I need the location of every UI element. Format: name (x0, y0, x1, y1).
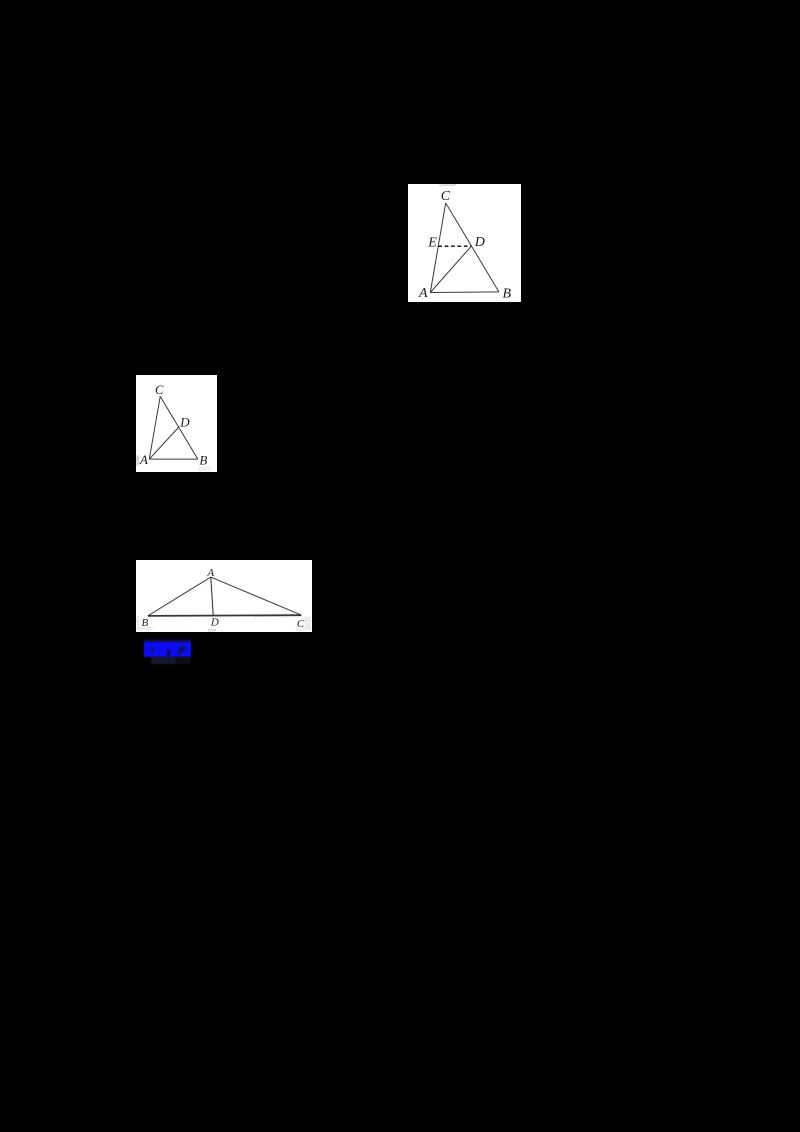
near-black under-blob right (176, 657, 191, 665)
svg-text:A: A (418, 286, 428, 301)
svg-text:D: D (474, 235, 485, 250)
figure 1 white panel (triangle ABC with D on CB, E on CA) (408, 184, 521, 302)
wire side BC (148, 614, 301, 617)
svg-text:A: A (139, 452, 148, 467)
wire side AC (211, 577, 301, 615)
faint smudge bottom right (198, 467, 211, 471)
segment AD (149, 427, 179, 460)
blue answer blob (144, 640, 192, 657)
svg-text:B: B (503, 287, 512, 302)
wire side CB (446, 203, 499, 292)
gray stripe artifact left of A (137, 456, 139, 466)
svg-text:E: E (427, 236, 437, 251)
faint top smudge (439, 184, 456, 186)
glyph gap mark 2 (167, 650, 170, 657)
segment AD (211, 577, 213, 616)
wire side CA (430, 203, 445, 293)
svg-text:C: C (155, 383, 164, 397)
wire side CB (160, 396, 198, 459)
svg-text:C: C (297, 618, 305, 630)
segment AD (430, 246, 471, 293)
svg-text:A: A (206, 567, 214, 579)
wire side CA (149, 396, 160, 459)
svg-text:D: D (179, 415, 190, 430)
figure 3 white panel (wide triangle ABC with D on BC) (136, 560, 312, 632)
gray artifact near B (137, 616, 139, 630)
dark navy under-blob (151, 657, 176, 665)
wire side AB (430, 291, 499, 294)
dashed segment ED (438, 245, 471, 247)
gray artifact near C (305, 617, 312, 631)
glyph gap mark 3 (177, 645, 186, 656)
figure 2 white panel (triangle ABC with D on CB) (136, 375, 217, 472)
wire side AB (149, 458, 198, 460)
gray artifact under D (208, 629, 216, 632)
svg-text:B: B (199, 453, 207, 468)
svg-text:C: C (441, 189, 451, 204)
svg-text:D: D (210, 616, 219, 628)
wire side BA (148, 577, 211, 616)
blue blob dark top strip (144, 640, 192, 642)
glyph gap mark 1 (150, 647, 154, 654)
